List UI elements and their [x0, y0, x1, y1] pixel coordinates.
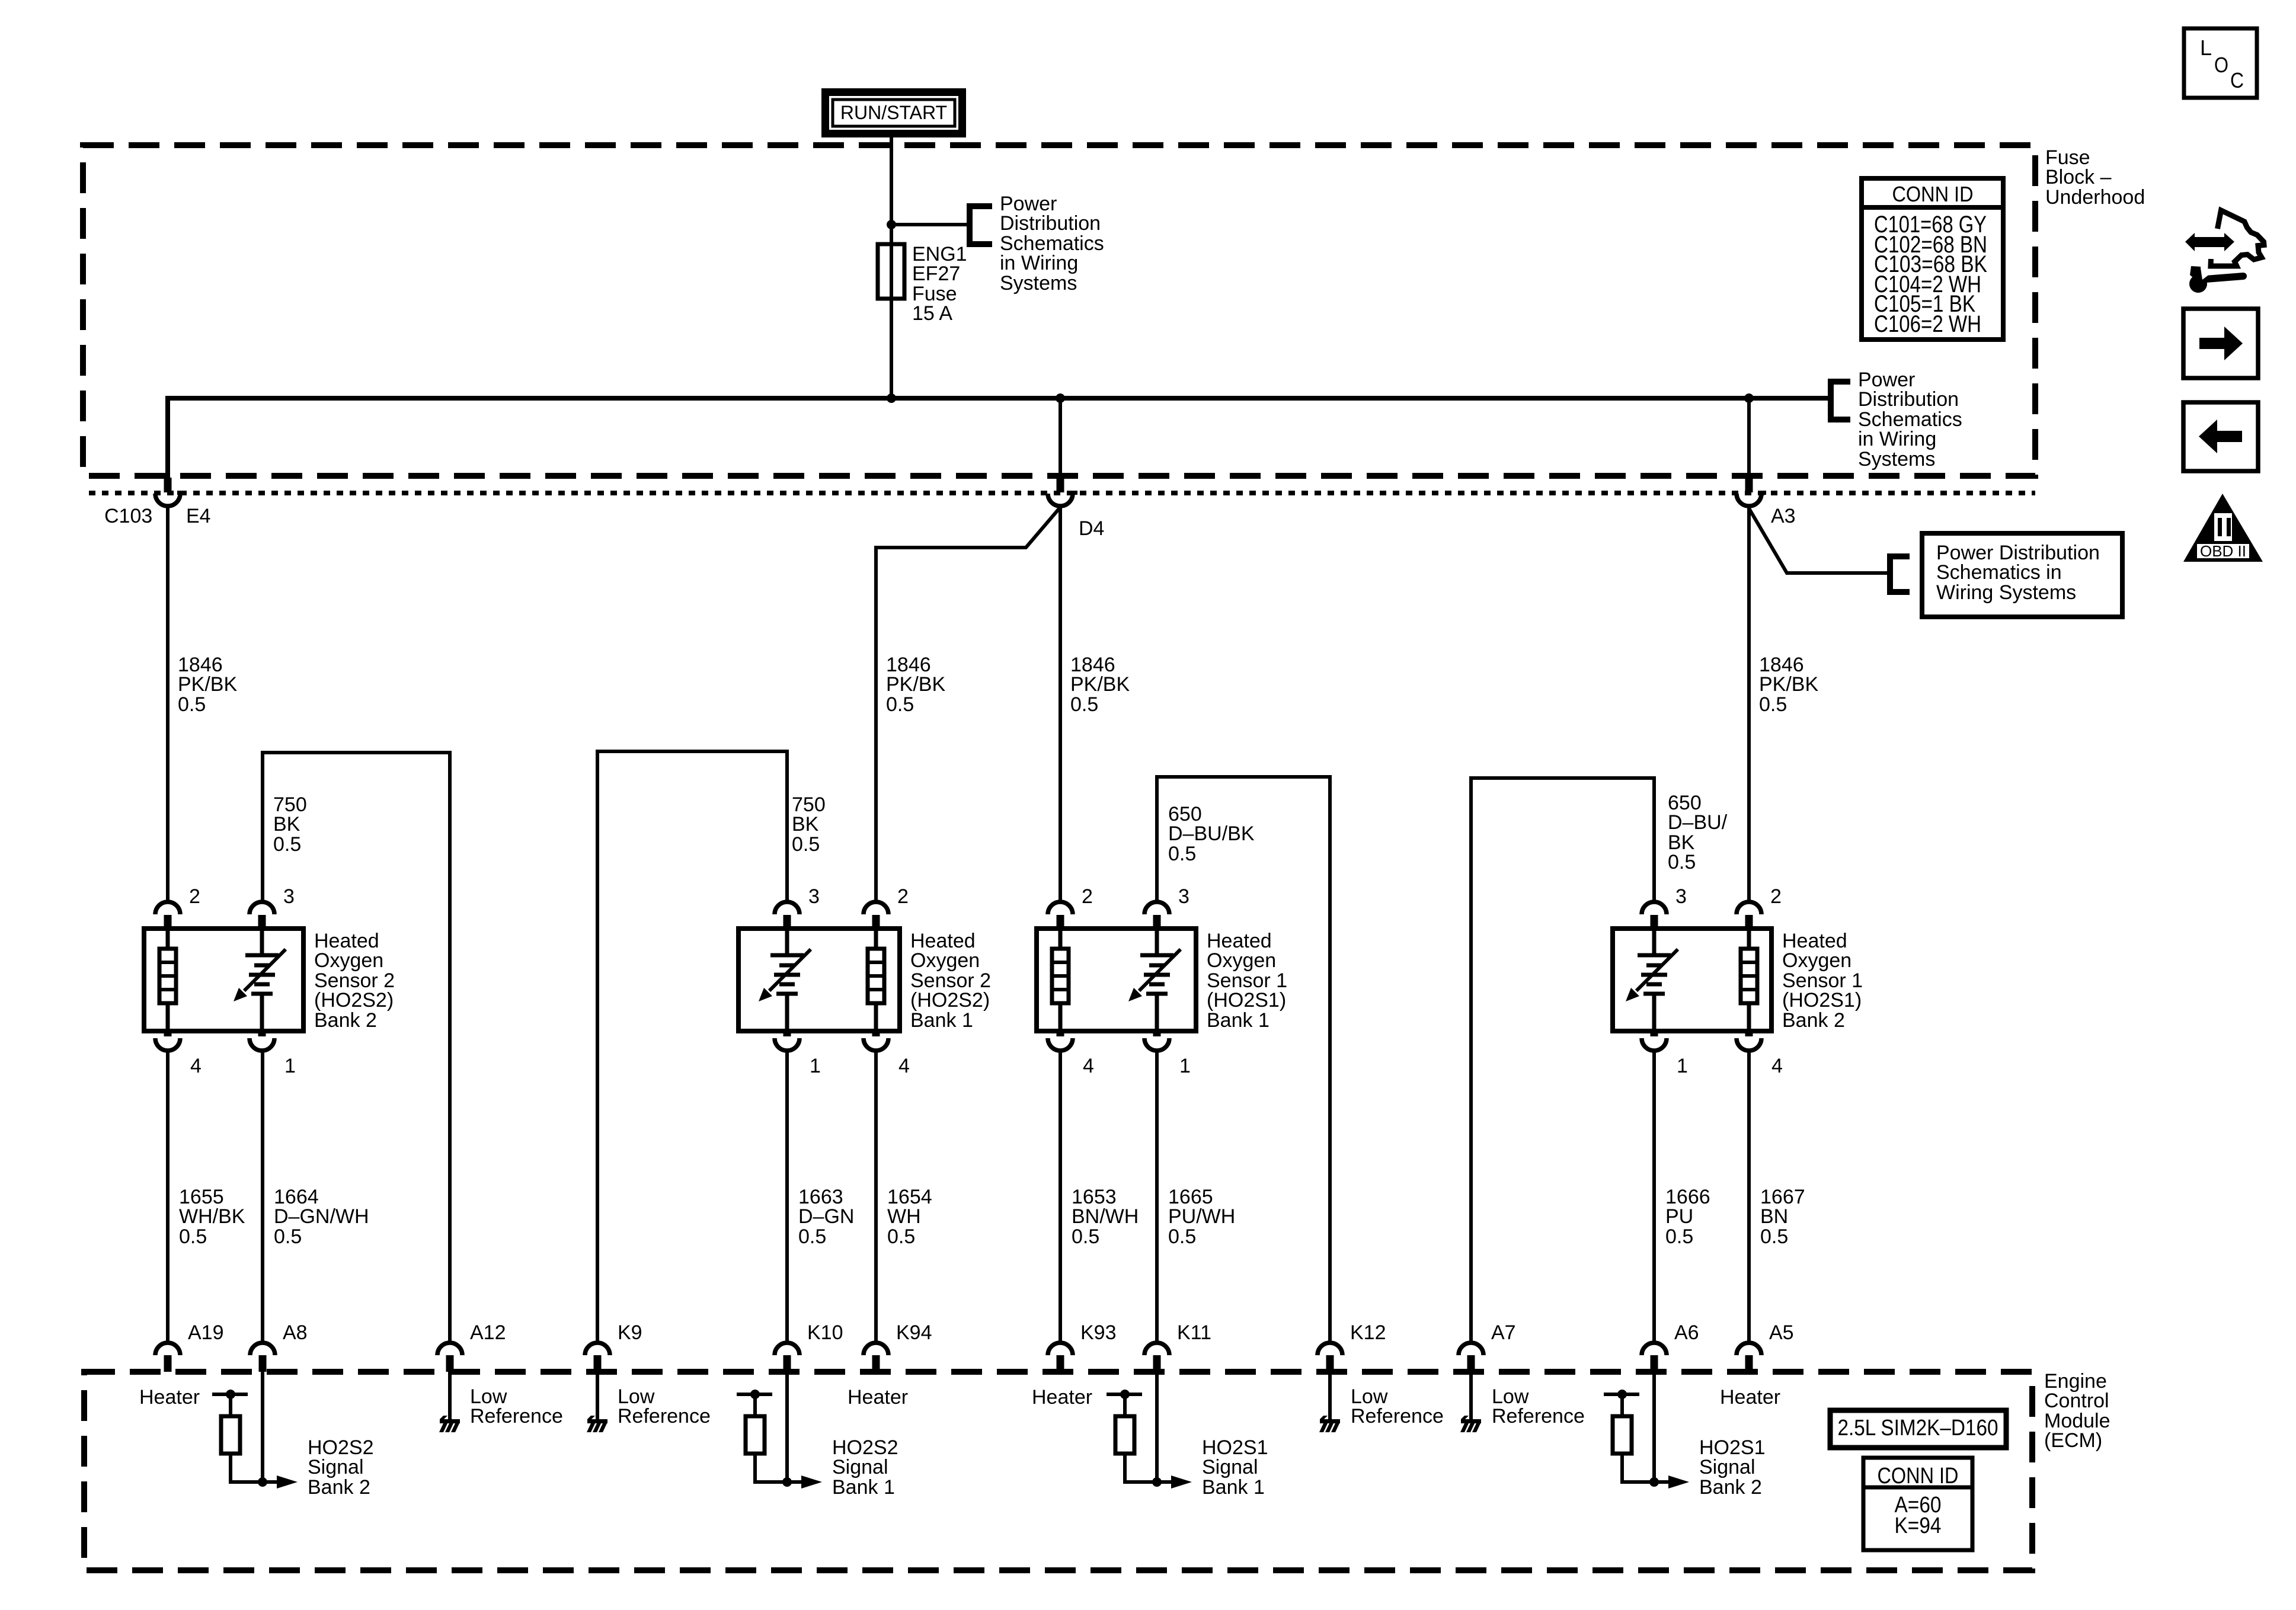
- svg-text:Signal: Signal: [1699, 1456, 1755, 1478]
- svg-text:D–BU/: D–BU/: [1668, 811, 1728, 834]
- back arrow legend box: [2183, 402, 2258, 471]
- HO2S2 bank2 heater element: [166, 929, 170, 949]
- svg-text:Heater: Heater: [1032, 1386, 1092, 1409]
- svg-text:D4: D4: [1079, 517, 1104, 540]
- ECM connector pin A6: [1642, 1343, 1667, 1355]
- svg-text:C: C: [2230, 68, 2244, 92]
- svg-text:L: L: [2200, 36, 2212, 60]
- svg-text:Bank 1: Bank 1: [910, 1009, 973, 1032]
- svg-text:(ECM): (ECM): [2044, 1429, 2102, 1452]
- wire sensor pin down to ECM at x=2791: [1652, 1051, 1656, 1343]
- svg-text:0.5: 0.5: [886, 693, 914, 716]
- A3 callout wire: [1749, 508, 1890, 573]
- svg-text:PK/BK: PK/BK: [886, 673, 945, 696]
- svg-text:3: 3: [1675, 885, 1687, 908]
- svg-text:0.5: 0.5: [1072, 1225, 1099, 1248]
- svg-text:Bank 2: Bank 2: [308, 1476, 370, 1499]
- forward arrow legend box: [2183, 309, 2258, 378]
- LOC legend box: [2184, 28, 2257, 98]
- HO2S1 bank2 sensing cell: [1652, 929, 1657, 955]
- svg-text:Control: Control: [2044, 1390, 2109, 1412]
- svg-text:Heater: Heater: [848, 1386, 908, 1409]
- svg-text:(HO2S1): (HO2S1): [1207, 989, 1286, 1012]
- HO2S2 bank2 pin 2 connector: [155, 902, 180, 914]
- wire E4 to HO2S2 bank2 pin 2: [166, 505, 170, 902]
- svg-text:A19: A19: [188, 1321, 224, 1344]
- ECM connector pin A5: [1737, 1343, 1761, 1355]
- connector C103 pin D4: [1057, 478, 1064, 492]
- svg-text:0.5: 0.5: [273, 833, 301, 856]
- wire sensor pin down to ECM at x=283: [166, 1051, 170, 1343]
- right callout bracket: [1831, 382, 1850, 420]
- wire D4 branch to HO2S2 bank1 pin 2: [876, 507, 1060, 902]
- svg-text:Bank 1: Bank 1: [1202, 1476, 1265, 1499]
- ground low reference at K9: [596, 1372, 599, 1421]
- svg-text:Heater: Heater: [1720, 1386, 1780, 1409]
- signal junction: [782, 1477, 792, 1487]
- heated oxygen sensor HO2S1 bank2 box: [1613, 929, 1771, 1031]
- svg-text:Reference: Reference: [1492, 1405, 1585, 1427]
- wire sensor pin down to ECM at x=1789: [1059, 1051, 1062, 1343]
- connector row C103 dotted line: [89, 491, 2035, 495]
- HO2S2 bank1 heater element: [874, 929, 878, 949]
- wire HO2S1 bank1 pin 3 to ECM K12: [1157, 777, 1330, 1343]
- svg-text:RUN/START: RUN/START: [840, 102, 947, 123]
- signal junction: [1152, 1477, 1162, 1487]
- svg-text:2: 2: [189, 885, 200, 908]
- signal pin wire: [785, 1372, 789, 1482]
- wire RUN/START to fuse ENG1: [890, 137, 893, 398]
- svg-text:0.5: 0.5: [179, 1225, 207, 1248]
- ground low reference at A7: [1469, 1372, 1473, 1421]
- wire sensor pin down to ECM at x=1478: [874, 1051, 878, 1343]
- wire resistor to signal junction: [229, 1454, 232, 1480]
- svg-text:(HO2S1): (HO2S1): [1782, 989, 1862, 1012]
- ECM connector pin A7: [1459, 1343, 1483, 1355]
- HO2S1 bank1 pin 3 connector: [1144, 902, 1169, 914]
- svg-text:C103: C103: [104, 505, 152, 527]
- svg-text:Oxygen: Oxygen: [1207, 949, 1276, 972]
- svg-text:0.5: 0.5: [1759, 693, 1787, 716]
- svg-text:1: 1: [1677, 1055, 1688, 1077]
- svg-text:CONN ID: CONN ID: [1892, 182, 1974, 206]
- bias resistor: [1613, 1416, 1632, 1454]
- A3 callout bracket: [1890, 556, 1910, 592]
- OBD II triangle icon: [2183, 494, 2263, 562]
- HO2S2 bank1 pin 2 connector: [864, 902, 888, 914]
- junction bus at D4 wire: [1056, 393, 1065, 403]
- svg-text:PK/BK: PK/BK: [1070, 673, 1130, 696]
- HO2S2 bank2 pin 1 connector: [258, 1031, 266, 1036]
- svg-text:PU: PU: [1665, 1205, 1693, 1228]
- wire bus to D4: [1059, 398, 1062, 478]
- svg-text:OBD II: OBD II: [2200, 542, 2246, 560]
- bias resistor: [221, 1416, 240, 1454]
- wire A3 to HO2S1 bank2 pin 2: [1747, 505, 1751, 902]
- svg-text:K94: K94: [896, 1321, 932, 1344]
- svg-text:1: 1: [810, 1055, 821, 1077]
- HO2S2 bank1 sensing cell: [785, 929, 789, 955]
- svg-text:Underhood: Underhood: [2045, 186, 2145, 209]
- svg-text:WH: WH: [887, 1205, 921, 1228]
- heated oxygen sensor HO2S2 bank2 box: [144, 929, 303, 1031]
- svg-text:4: 4: [1083, 1055, 1094, 1077]
- svg-text:E4: E4: [186, 505, 211, 527]
- svg-text:Signal: Signal: [308, 1456, 364, 1478]
- vehicle fender diagnostic icon: [2211, 210, 2264, 266]
- ECM connector pin A8: [250, 1343, 275, 1355]
- CONN ID table fuse block: [1862, 178, 2003, 340]
- wire HO2S2 bank2 pin 3 to ECM A12: [263, 753, 450, 1343]
- ECM variant box 2.5L SIM2K-D160: [1830, 1410, 2006, 1448]
- svg-text:Bank 2: Bank 2: [1699, 1476, 1762, 1499]
- wire sensor pin down to ECM at x=1952: [1155, 1051, 1159, 1343]
- wire ECM A7 to HO2S1 bank2 pin 3: [1471, 778, 1654, 1343]
- HO2S1 bank2 heater element: [1747, 929, 1751, 949]
- svg-text:BN: BN: [1760, 1205, 1788, 1228]
- ECM connector pin A12: [437, 1343, 462, 1355]
- svg-text:PU/WH: PU/WH: [1168, 1205, 1235, 1228]
- svg-text:0.5: 0.5: [1070, 693, 1098, 716]
- svg-text:Bank 1: Bank 1: [832, 1476, 895, 1499]
- fuse block underhood dashed outline: [83, 145, 2035, 476]
- HO2S1 bank2 pin 2 connector: [1737, 902, 1761, 914]
- svg-text:PK/BK: PK/BK: [1759, 673, 1818, 696]
- svg-text:3: 3: [808, 885, 820, 908]
- signal pin wire: [261, 1372, 264, 1482]
- ground low reference at K12: [1328, 1372, 1332, 1421]
- svg-text:Systems: Systems: [1858, 448, 1935, 470]
- ECM connector pin K9: [585, 1343, 610, 1355]
- svg-text:A12: A12: [470, 1321, 506, 1344]
- svg-text:Signal: Signal: [1202, 1456, 1258, 1478]
- svg-text:K10: K10: [807, 1321, 843, 1344]
- signal arrow: [801, 1475, 822, 1489]
- svg-text:4: 4: [1771, 1055, 1783, 1077]
- svg-text:2: 2: [1082, 885, 1093, 908]
- HO2S1 bank1 pin 1 connector: [1153, 1031, 1161, 1036]
- svg-text:A7: A7: [1491, 1321, 1516, 1344]
- svg-text:D–GN/WH: D–GN/WH: [274, 1205, 369, 1228]
- svg-text:1: 1: [284, 1055, 296, 1077]
- wire resistor to signal junction: [753, 1454, 757, 1480]
- HO2S2 bank1 pin 3 connector: [775, 902, 800, 914]
- wire resistor to signal junction: [1123, 1454, 1127, 1480]
- svg-text:C106=2 WH: C106=2 WH: [1874, 311, 1981, 337]
- HO2S1 bank1 sensing cell: [1155, 929, 1159, 955]
- svg-text:0.5: 0.5: [1665, 1225, 1693, 1248]
- signal pin wire: [1155, 1372, 1159, 1482]
- svg-text:2: 2: [897, 885, 909, 908]
- HO2S2 bank2 sensing cell: [260, 929, 264, 955]
- svg-text:D–BU/BK: D–BU/BK: [1168, 822, 1255, 845]
- svg-text:Bank 2: Bank 2: [314, 1009, 377, 1032]
- svg-text:0.5: 0.5: [1760, 1225, 1788, 1248]
- wrench of diagnostic icon: [2189, 275, 2207, 293]
- wire ECM K9 to HO2S2 bank1 pin 3: [597, 751, 787, 1343]
- svg-text:K9: K9: [618, 1321, 642, 1344]
- svg-text:BN/WH: BN/WH: [1072, 1205, 1139, 1228]
- fuse ENG1 EF27 15A: [878, 244, 904, 299]
- svg-text:A5: A5: [1769, 1321, 1794, 1344]
- svg-text:Oxygen: Oxygen: [1782, 949, 1851, 972]
- HO2S1 bank2 pin 4 connector: [1745, 1031, 1753, 1036]
- svg-text:0.5: 0.5: [792, 833, 820, 856]
- ECM connector pin K94: [864, 1343, 888, 1355]
- svg-text:WH/BK: WH/BK: [179, 1205, 245, 1228]
- connector C103 pin A3: [1745, 478, 1753, 492]
- svg-text:in Wiring: in Wiring: [1000, 252, 1078, 274]
- HO2S1 bank1 pin 4 connector: [1057, 1031, 1064, 1036]
- RUN/START ignition voltage box: [821, 88, 966, 137]
- svg-text:Reference: Reference: [618, 1405, 711, 1427]
- svg-text:A8: A8: [283, 1321, 308, 1344]
- svg-text:0.5: 0.5: [274, 1225, 302, 1248]
- svg-text:A6: A6: [1674, 1321, 1699, 1344]
- bias resistor: [1115, 1416, 1134, 1454]
- bias supply stub: [212, 1393, 248, 1396]
- wire bus to A3: [1747, 398, 1751, 478]
- junction above fuse: [887, 220, 896, 229]
- ground low reference at A12: [448, 1372, 452, 1421]
- svg-text:Distribution: Distribution: [1000, 212, 1101, 235]
- HO2S1 bank1 heater element: [1059, 929, 1063, 949]
- svg-text:O: O: [2214, 53, 2228, 77]
- HO2S2 bank2 pin 4 connector: [164, 1031, 172, 1036]
- svg-text:3: 3: [283, 885, 295, 908]
- signal junction: [1649, 1477, 1659, 1487]
- ECM connector pin K11: [1144, 1343, 1169, 1355]
- wire sensor pin down to ECM at x=2951: [1747, 1051, 1751, 1343]
- svg-text:3: 3: [1178, 885, 1189, 908]
- heated oxygen sensor HO2S2 bank1 box: [738, 929, 900, 1031]
- svg-text:Bank 1: Bank 1: [1207, 1009, 1269, 1032]
- svg-text:BK: BK: [273, 813, 300, 836]
- svg-text:15 A: 15 A: [912, 302, 952, 325]
- HO2S1 bank2 pin 1 connector: [1651, 1031, 1658, 1036]
- wire sensor pin down to ECM at x=443: [261, 1051, 264, 1343]
- ECM connector pin K12: [1318, 1343, 1342, 1355]
- svg-text:Block –: Block –: [2045, 166, 2112, 188]
- connector C103 pin E4: [164, 478, 172, 492]
- svg-text:Signal: Signal: [832, 1456, 888, 1478]
- svg-text:0.5: 0.5: [1168, 843, 1196, 865]
- svg-text:4: 4: [898, 1055, 910, 1077]
- ECM connector pin A19: [155, 1343, 180, 1355]
- svg-text:Distribution: Distribution: [1858, 388, 1959, 411]
- svg-text:A3: A3: [1771, 505, 1796, 527]
- svg-text:PK/BK: PK/BK: [178, 673, 237, 696]
- bias supply stub: [1107, 1393, 1142, 1396]
- svg-text:4: 4: [190, 1055, 202, 1077]
- svg-text:K12: K12: [1350, 1321, 1386, 1344]
- wire sensor pin down to ECM at x=1328: [785, 1051, 789, 1343]
- svg-text:0.5: 0.5: [798, 1225, 826, 1248]
- svg-text:Schematics in: Schematics in: [1936, 561, 2062, 584]
- svg-text:Reference: Reference: [470, 1405, 563, 1427]
- signal pin wire: [1652, 1372, 1656, 1482]
- svg-text:0.5: 0.5: [178, 693, 206, 716]
- svg-text:Oxygen: Oxygen: [314, 949, 383, 972]
- ECM connector pin K93: [1048, 1343, 1073, 1355]
- junction bus at A3 wire: [1744, 393, 1754, 403]
- A3 callout box Power Distribution Schematics in Wiring Systems: [1922, 533, 2122, 617]
- svg-text:(HO2S2): (HO2S2): [910, 989, 990, 1012]
- wire junction to upper callout bracket: [891, 223, 970, 226]
- svg-text:0.5: 0.5: [1168, 1225, 1196, 1248]
- junction bus at fuse wire: [887, 393, 896, 403]
- svg-text:(HO2S2): (HO2S2): [314, 989, 394, 1012]
- bias supply stub: [1604, 1393, 1639, 1396]
- HO2S2 bank2 pin 3 connector: [250, 902, 274, 914]
- HO2S2 bank1 pin 1 connector: [784, 1031, 791, 1036]
- HO2S1 bank2 pin 3 connector: [1642, 902, 1667, 914]
- svg-text:D–GN: D–GN: [798, 1205, 854, 1228]
- svg-text:Oxygen: Oxygen: [910, 949, 980, 972]
- HO2S2 bank1 pin 4 connector: [872, 1031, 880, 1036]
- bias supply stub: [737, 1393, 772, 1396]
- svg-text:in Wiring: in Wiring: [1858, 428, 1936, 450]
- svg-text:Wiring Systems: Wiring Systems: [1936, 581, 2076, 604]
- ECM connector pin K10: [775, 1343, 800, 1355]
- power bus wire from E4 to right callout: [168, 398, 1831, 478]
- svg-text:0.5: 0.5: [1668, 851, 1696, 873]
- svg-text:BK: BK: [792, 813, 819, 836]
- HO2S1 bank1 pin 2 connector: [1048, 902, 1073, 914]
- svg-text:2.5L SIM2K–D160: 2.5L SIM2K–D160: [1838, 1416, 1998, 1441]
- signal arrow: [1668, 1475, 1689, 1489]
- wire resistor to signal junction: [1620, 1454, 1624, 1480]
- heated oxygen sensor HO2S1 bank1 box: [1037, 929, 1196, 1031]
- wire D4 to HO2S1 bank1 pin 2: [1059, 505, 1062, 902]
- svg-text:2: 2: [1770, 885, 1782, 908]
- signal arrow: [1171, 1475, 1192, 1489]
- svg-text:1: 1: [1179, 1055, 1191, 1077]
- bias resistor: [746, 1416, 765, 1454]
- svg-text:K93: K93: [1080, 1321, 1117, 1344]
- svg-text:K11: K11: [1177, 1321, 1211, 1344]
- svg-text:Systems: Systems: [1000, 272, 1077, 295]
- signal junction: [258, 1477, 267, 1487]
- svg-text:EF27: EF27: [912, 263, 960, 285]
- svg-text:Bank 2: Bank 2: [1782, 1009, 1845, 1032]
- signal arrow: [277, 1475, 298, 1489]
- engine control module dashed outline: [84, 1372, 2032, 1570]
- svg-text:0.5: 0.5: [887, 1225, 915, 1248]
- svg-text:Reference: Reference: [1351, 1405, 1444, 1427]
- svg-text:Heater: Heater: [139, 1386, 200, 1409]
- svg-text:CONN ID: CONN ID: [1878, 1464, 1959, 1489]
- upper callout bracket: [970, 206, 992, 244]
- svg-text:K=94: K=94: [1895, 1513, 1942, 1538]
- ECM CONN ID table: [1863, 1458, 1972, 1550]
